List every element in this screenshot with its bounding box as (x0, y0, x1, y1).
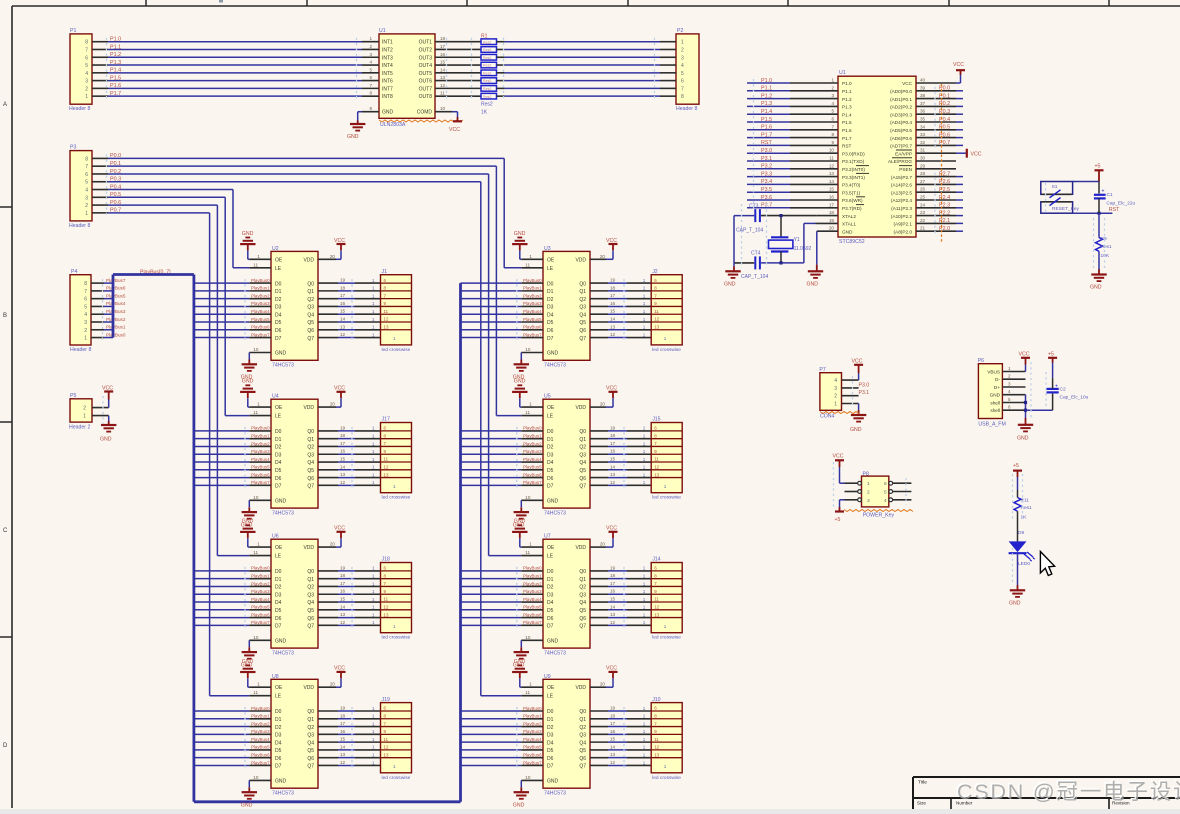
svg-text:P2: P2 (677, 28, 683, 34)
net label P1.1 (110, 44, 121, 50)
svg-text:4: 4 (834, 378, 837, 384)
svg-text:11: 11 (440, 91, 445, 96)
net label RST (1109, 207, 1120, 213)
svg-text:PlayBus2: PlayBus2 (251, 721, 270, 726)
net label PlayBus2 at U3 D2 (523, 293, 542, 298)
net label PlayBus0 at U3 D0 (523, 278, 542, 283)
net label PlayBus4 at U2 D4 (251, 309, 270, 314)
U6 pin Q5 number 14 (340, 604, 346, 609)
wire U3 GND pin down (520, 353, 522, 365)
wire U4 VDD to VCC (336, 392, 341, 407)
svg-text:2: 2 (369, 44, 372, 49)
wire U7 GND pin down (520, 640, 522, 652)
svg-text:P1.4: P1.4 (761, 109, 772, 115)
svg-text:25: 25 (920, 195, 926, 200)
P8 error squiggle (844, 510, 913, 512)
svg-text:PlayBus2: PlayBus2 (251, 581, 270, 586)
svg-text:OE: OE (275, 257, 283, 263)
svg-text:PlayBus4: PlayBus4 (251, 457, 270, 462)
svg-text:11: 11 (829, 156, 834, 161)
wire U6 Q4 to connector (338, 601, 381, 603)
svg-text:18: 18 (340, 713, 346, 718)
svg-text:1: 1 (372, 745, 375, 750)
MCU U1 designator (839, 70, 846, 76)
svg-text:11.0592: 11.0592 (794, 246, 812, 252)
power port VCC at P8 (833, 454, 845, 484)
ground symbol above U8 OE (240, 659, 255, 679)
connector J19 comment led crosswise (382, 775, 411, 781)
wire U9 Q3 to connector (608, 733, 651, 735)
svg-text:GND: GND (1009, 601, 1021, 607)
wire bus to U9 D0 (461, 710, 522, 712)
wire bus to U6 D7 (194, 624, 249, 626)
svg-text:6: 6 (831, 117, 834, 122)
net label P0.0 (110, 153, 121, 159)
connector P2 designator (677, 28, 683, 34)
svg-text:D0: D0 (547, 281, 554, 287)
title block divider 1 (950, 798, 952, 814)
wire bus to U7 D6 (461, 617, 522, 619)
U9 pin Q1 number 18 (610, 713, 616, 718)
wire P0.0 horizontal from P3 (108, 157, 504, 159)
svg-text:D0: D0 (547, 709, 554, 715)
connector P2 body (676, 34, 699, 104)
wire U3 Q4 to connector (608, 313, 651, 315)
wire bus to U8 D5 (194, 749, 249, 751)
U8 pin Q1 number 18 (340, 713, 346, 718)
ground symbol below U4 (241, 512, 257, 528)
svg-text:D5: D5 (547, 608, 554, 614)
MCU left pin names (842, 81, 865, 234)
svg-text:+: + (1055, 383, 1058, 389)
svg-text:VCC: VCC (334, 666, 345, 672)
power port VCC at P7 (852, 359, 864, 381)
svg-text:1: 1 (643, 441, 646, 446)
svg-text:(A13)P2.5: (A13)P2.5 (891, 190, 912, 195)
svg-text:10: 10 (829, 148, 835, 153)
wire bus to U6 D6 (194, 617, 249, 619)
P8 pin numbers left 1-3 (867, 481, 870, 504)
wire P0.3 horizontal from P3 (108, 181, 481, 183)
svg-text:P1.7: P1.7 (761, 132, 772, 138)
connector J14 pin number (643, 620, 646, 625)
U7 pin Q7 (579, 624, 608, 630)
junction at RST node (1097, 212, 1100, 215)
svg-text:19: 19 (340, 565, 346, 570)
svg-text:INT5: INT5 (382, 71, 393, 77)
wire U9 Q4 to connector (608, 741, 651, 743)
U2 pin D0 (249, 281, 281, 287)
svg-text:1: 1 (643, 433, 646, 438)
C2 designator (1060, 387, 1066, 393)
ground symbol above U4 OE (240, 379, 255, 399)
U9 pin Q2 number 17 (610, 721, 616, 726)
svg-text:27: 27 (920, 179, 926, 184)
svg-text:1: 1 (372, 760, 375, 765)
svg-text:Q1: Q1 (579, 289, 586, 295)
U3 pin D2 (521, 297, 553, 303)
svg-text:Header 2: Header 2 (69, 425, 90, 431)
wire and net label P3.1 at MCU left (747, 156, 790, 162)
svg-text:3: 3 (85, 195, 88, 201)
svg-text:14: 14 (610, 317, 616, 322)
wire U9 Q1 to connector (608, 718, 651, 720)
svg-text:20: 20 (330, 402, 336, 407)
connector P4 body (70, 275, 91, 345)
svg-text:P3.5: P3.5 (761, 187, 772, 193)
connector P7 pin numbers 4..1 (834, 378, 837, 407)
wire U3 Q1 to connector (608, 290, 651, 292)
svg-text:Q4: Q4 (307, 460, 314, 466)
capacitor CT4 (755, 256, 760, 269)
net label PlayBus0 at U9 D0 (523, 706, 542, 711)
svg-text:10: 10 (525, 347, 531, 352)
bus PlayBus left vertical (192, 275, 195, 802)
U8 pin D3 (249, 733, 281, 739)
svg-text:P0.1: P0.1 (939, 93, 950, 99)
U7 pin Q3 (579, 592, 608, 598)
svg-text:11: 11 (654, 597, 659, 602)
svg-text:18: 18 (610, 433, 616, 438)
svg-text:COMD: COMD (417, 110, 433, 116)
svg-text:Q0: Q0 (307, 569, 314, 575)
wire bus to U6 D2 (194, 585, 249, 587)
wire U7 VDD to VCC (606, 532, 613, 547)
U5 pin D0 (521, 429, 553, 435)
U3 pin D4 (521, 312, 553, 318)
wire LE corner to latch pin (net P0.6) (217, 555, 249, 557)
svg-text:PlayBus0: PlayBus0 (106, 332, 126, 337)
net label PlayBus6 at U5 D6 (523, 472, 542, 477)
connector J14 row labels (654, 566, 667, 629)
svg-text:PlayBus7: PlayBus7 (251, 760, 270, 765)
ground symbol below MCU GND pin (807, 271, 824, 287)
wire bus to U4 D4 (194, 461, 249, 463)
wire bus to U9 D6 (461, 757, 522, 759)
svg-text:15: 15 (340, 737, 346, 742)
svg-text:P3.1: P3.1 (859, 390, 870, 396)
title block label Size (917, 801, 926, 806)
svg-text:39: 39 (920, 85, 926, 90)
svg-text:Q3: Q3 (307, 592, 314, 598)
wire P4 pin6 to bus (104, 298, 113, 300)
svg-text:D5: D5 (547, 320, 554, 326)
latch U9 designator (544, 674, 551, 680)
wire U7 Q5 to connector (608, 609, 651, 611)
wire U7 Q3 to connector (608, 593, 651, 595)
svg-text:+5: +5 (1095, 164, 1101, 170)
connector P1 comment Header 8 (69, 106, 90, 112)
wire bus to U5 D2 (461, 445, 522, 447)
svg-text:D2: D2 (547, 585, 554, 591)
latch U6 designator (272, 534, 279, 540)
svg-text:D6: D6 (547, 476, 554, 482)
svg-text:P3.1: P3.1 (761, 156, 772, 162)
latch U5 designator (544, 394, 551, 400)
svg-text:1: 1 (834, 402, 837, 408)
U5 pin Q0 number 19 (610, 425, 616, 430)
svg-text:INT6: INT6 (382, 79, 393, 85)
wire bus to U9 D3 (461, 733, 522, 735)
svg-text:D5: D5 (547, 748, 554, 754)
svg-text:P1.2: P1.2 (761, 93, 772, 99)
svg-text:D7: D7 (547, 336, 554, 342)
wire and net label P3.4 at MCU left (747, 179, 790, 185)
U2 pin Q0 number 19 (340, 278, 346, 283)
net label PlayBus7 at U5 D7 (523, 480, 542, 485)
U8 pin Q5 number 14 (340, 744, 346, 749)
svg-text:GND: GND (275, 351, 287, 357)
U4 pin Q2 (307, 445, 338, 451)
svg-text:12: 12 (829, 163, 835, 168)
U9 pin D6 (521, 756, 553, 762)
svg-text:10K: 10K (1101, 253, 1110, 259)
connector P5 pin numbers (83, 406, 86, 420)
svg-text:OE: OE (547, 405, 555, 411)
svg-text:PlayBus7: PlayBus7 (251, 480, 270, 485)
svg-text:6: 6 (85, 55, 88, 61)
wire and net label P3.3 at MCU left (747, 171, 790, 177)
wire R1 out 4 to P2 (505, 64, 660, 66)
svg-text:1: 1 (372, 581, 375, 586)
svg-text:15: 15 (340, 457, 346, 462)
svg-text:(A15)P2.7: (A15)P2.7 (891, 175, 912, 180)
U4 pin Q5 (307, 468, 338, 474)
connector J15 pin number (643, 449, 646, 454)
frame row ticks left (0, 207, 12, 637)
connector J10 comment led crosswise (652, 775, 681, 781)
svg-text:D0: D0 (275, 281, 282, 287)
svg-text:11: 11 (253, 690, 258, 695)
wire U8 Q6 to connector (338, 757, 381, 759)
svg-text:2: 2 (834, 394, 837, 400)
wire P4 pin3 to bus (104, 321, 113, 323)
wire USB shell to C2 (1026, 409, 1053, 411)
U5 pin11 LE (521, 410, 553, 420)
wire P5 pin1 to ground (108, 416, 110, 425)
MCU left pins (790, 83, 838, 208)
svg-text:6: 6 (1008, 405, 1011, 410)
svg-text:8: 8 (369, 91, 372, 96)
svg-text:VCC: VCC (606, 666, 617, 672)
net label PlayBus0 at U6 D0 (251, 566, 270, 571)
svg-text:GND: GND (842, 229, 853, 234)
U3 pin20 VDD (575, 254, 606, 264)
svg-text:1: 1 (257, 682, 260, 687)
svg-text:14: 14 (340, 464, 346, 469)
svg-text:D2: D2 (275, 445, 282, 451)
svg-text:26: 26 (920, 187, 926, 192)
svg-text:VDD: VDD (575, 257, 586, 263)
svg-text:PlayBus2: PlayBus2 (251, 441, 270, 446)
wire P4 pin7 to bus (104, 290, 113, 292)
wire bus to U7 D2 (461, 585, 522, 587)
svg-text:RST: RST (761, 140, 772, 146)
svg-text:Q6: Q6 (579, 476, 586, 482)
svg-text:1: 1 (372, 457, 375, 462)
svg-text:1: 1 (257, 542, 260, 547)
wire bus to U6 D4 (194, 601, 249, 603)
connector J2 pin number (643, 286, 646, 291)
wire U6 Q7 to connector (338, 624, 381, 626)
svg-text:10: 10 (440, 106, 446, 111)
wire and net label P2.5 at MCU right (939, 187, 963, 193)
svg-text:P1.3: P1.3 (761, 101, 772, 107)
frame column ticks top (146, 0, 1109, 6)
U1 left pin names (382, 40, 393, 100)
svg-text:P1.3: P1.3 (842, 105, 852, 110)
svg-text:74HC573: 74HC573 (544, 650, 566, 656)
svg-text:P1.5: P1.5 (761, 117, 772, 123)
svg-text:VCC: VCC (334, 386, 345, 392)
svg-text:11: 11 (384, 309, 389, 314)
svg-text:1: 1 (372, 620, 375, 625)
connector P6 comment USB_A_FM (978, 422, 1005, 428)
svg-text:R9: R9 (1101, 236, 1107, 242)
svg-text:D5: D5 (547, 468, 554, 474)
svg-text:1: 1 (643, 566, 646, 571)
svg-text:P2.6: P2.6 (939, 179, 950, 185)
wire LE corner to latch pin (net P0.2) (489, 555, 522, 557)
svg-text:LE: LE (275, 554, 282, 560)
svg-text:ULN2803A: ULN2803A (380, 122, 406, 128)
svg-text:15: 15 (610, 597, 616, 602)
connector J17 pin number (372, 480, 375, 485)
wire U6 Q6 to connector (338, 617, 381, 619)
U2 pin D2 (249, 297, 281, 303)
U6 comment 74HC573 (272, 650, 294, 656)
svg-text:1: 1 (643, 286, 646, 291)
connector J19 row labels (384, 706, 397, 769)
connector J1 pin number (372, 286, 375, 291)
svg-text:D6: D6 (275, 328, 282, 334)
wire U7 Q6 to connector (608, 617, 651, 619)
wire U3 Q7 to connector (608, 337, 651, 339)
svg-text:(AD0)P0.0: (AD0)P0.0 (890, 89, 912, 94)
power port VCC at P5 (102, 386, 113, 408)
net label PlayBus3 at U9 D3 (523, 729, 542, 734)
svg-text:Res2: Res2 (483, 71, 491, 75)
net label PlayBus2 at U6 D2 (251, 581, 270, 586)
svg-text:1: 1 (372, 301, 375, 306)
svg-text:D4: D4 (547, 740, 554, 746)
wire and net label P0.6 at MCU right (939, 132, 963, 138)
U8 pin Q6 number 13 (340, 752, 346, 757)
svg-text:1: 1 (643, 472, 646, 477)
compile marker dashes MCU sides (754, 79, 936, 235)
svg-text:P3.0: P3.0 (859, 382, 870, 388)
connector P4 pin numbers 8..1 (84, 281, 87, 341)
ground symbol below LED (1009, 590, 1025, 606)
net label PlayBus0 at U8 D0 (251, 706, 270, 711)
U8 pin Q2 number 17 (340, 721, 346, 726)
U1 right pins OUT1-OUT8 (435, 42, 452, 96)
wire U4 GND pin down (248, 500, 250, 512)
svg-text:GND: GND (514, 231, 526, 237)
connector J1 pin number (372, 332, 375, 337)
svg-text:PlayBus6: PlayBus6 (251, 325, 270, 330)
svg-text:PlayBus6: PlayBus6 (523, 325, 542, 330)
net label P1.3 (110, 60, 121, 66)
wire and net label P2.4 at MCU right (939, 195, 963, 201)
svg-text:GND: GND (242, 379, 254, 385)
svg-text:C2: C2 (1060, 387, 1066, 393)
ground symbol below U9 (513, 792, 529, 808)
connector J15 body (651, 423, 682, 493)
wire R1 out 2 to P2 (505, 48, 660, 50)
S1 designator (1052, 184, 1058, 190)
net label PlayBus6 at U9 D6 (523, 752, 542, 757)
U2 pin D7 (249, 336, 281, 342)
svg-text:30: 30 (920, 156, 926, 161)
svg-text:GND: GND (275, 778, 287, 784)
svg-text:8: 8 (681, 94, 684, 100)
svg-text:D3: D3 (547, 592, 554, 598)
svg-text:D3: D3 (547, 452, 554, 458)
wire U9 Q6 to connector (608, 757, 651, 759)
svg-text:PlayBus1: PlayBus1 (106, 325, 126, 330)
wire U3 Q3 to connector (608, 305, 651, 307)
power port +5 above R11 (1013, 463, 1022, 477)
svg-text:17: 17 (829, 202, 835, 207)
svg-text:4: 4 (85, 71, 88, 77)
svg-text:LE: LE (547, 554, 554, 560)
svg-text:16: 16 (610, 589, 616, 594)
ground symbol below P7 (850, 415, 866, 433)
svg-text:P3.7(RD): P3.7(RD) (842, 206, 862, 211)
svg-text:Q2: Q2 (579, 725, 586, 731)
svg-text:D4: D4 (275, 312, 282, 318)
U5 pin D2 (521, 445, 553, 451)
U7 pin D5 (521, 608, 553, 614)
wire LE corner to latch pin (net P0.7) (210, 695, 250, 697)
net label PlayBus4 at U9 D4 (523, 737, 542, 742)
svg-text:PlayBus5: PlayBus5 (106, 293, 126, 298)
svg-text:1: 1 (643, 301, 646, 306)
svg-text:PlayBus6: PlayBus6 (523, 752, 542, 757)
svg-text:D6: D6 (547, 616, 554, 622)
wire bus to U8 D1 (194, 718, 249, 720)
svg-text:P2.2: P2.2 (939, 210, 950, 216)
wire U5 VDD to VCC (606, 392, 613, 407)
U9 comment 74HC573 (544, 791, 566, 797)
svg-text:17: 17 (610, 293, 616, 298)
connector P3 pins (92, 158, 108, 212)
svg-text:led crosswise: led crosswise (652, 495, 681, 501)
svg-text:74HC573: 74HC573 (272, 363, 294, 369)
svg-text:Q7: Q7 (579, 764, 586, 770)
connector P1 designator (70, 28, 76, 34)
svg-text:P1.1: P1.1 (842, 89, 852, 94)
connector J18 row labels (384, 566, 397, 629)
U3 pin Q7 number 12 (610, 332, 616, 337)
S1 comment RESET_Key (1052, 206, 1080, 212)
svg-text:Q0: Q0 (579, 709, 586, 715)
U6 pin Q6 number 13 (340, 612, 346, 617)
svg-text:(AD7)P0.7: (AD7)P0.7 (890, 144, 912, 149)
svg-text:1: 1 (372, 721, 375, 726)
connector J19 pin number (372, 752, 375, 757)
svg-text:GND: GND (242, 231, 254, 237)
U2 pin Q6 (307, 328, 338, 334)
connector P5 designator (70, 393, 76, 399)
wire bus to U8 D6 (194, 757, 249, 759)
svg-text:OUT5: OUT5 (419, 71, 433, 77)
title block middle line (913, 797, 1180, 799)
svg-text:1: 1 (372, 589, 375, 594)
wire bus to U3 D1 (461, 290, 522, 292)
svg-text:1: 1 (372, 293, 375, 298)
